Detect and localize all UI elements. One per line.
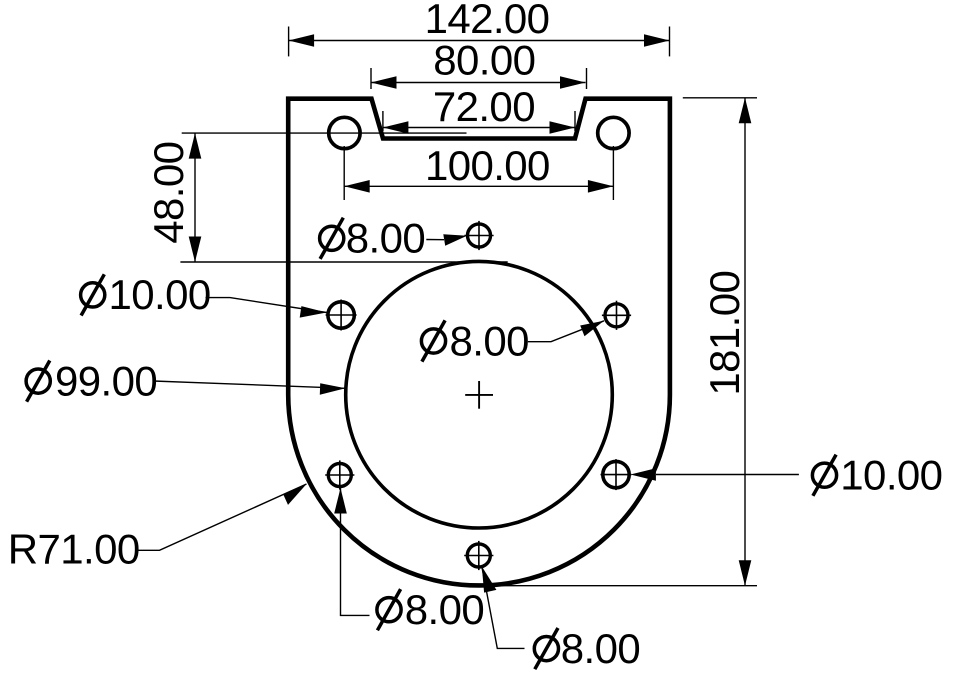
hole D10 upper-left [326, 300, 357, 331]
label D99.00 [26, 361, 50, 402]
hole D8 bottom [464, 541, 493, 570]
hole D8 upper-right [602, 301, 631, 330]
label D10.00 left [81, 274, 105, 315]
hole D8 lower-left [325, 460, 354, 489]
label D8.00 bottom [534, 628, 558, 669]
leader D8 bottom [482, 566, 640, 672]
dim 72.00 [383, 111, 575, 131]
hole top-right (plain) [598, 117, 629, 148]
big circle D99 [346, 261, 613, 528]
dim 48.00 [180, 133, 507, 262]
svg-text:181.00: 181.00 [701, 271, 748, 396]
leader D8 top [320, 215, 467, 262]
svg-text:8.00: 8.00 [405, 586, 484, 633]
hole D8 top [464, 221, 493, 250]
svg-text:8.00: 8.00 [561, 625, 640, 672]
label D8.00 top [320, 218, 344, 259]
svg-text:10.00: 10.00 [109, 271, 211, 318]
part outline [288, 99, 670, 586]
svg-text:8.00: 8.00 [450, 317, 529, 364]
label D8.00 lower-left [377, 589, 401, 630]
svg-text:99.00: 99.00 [55, 357, 157, 404]
center mark [465, 381, 493, 409]
hole D10 lower-right [601, 459, 632, 490]
leader D8 lower-left [334, 488, 484, 633]
leader D10 right [630, 452, 942, 499]
svg-text:8.00: 8.00 [346, 215, 425, 262]
label D10.00 right [812, 455, 836, 496]
svg-text:48.00: 48.00 [145, 142, 192, 244]
leader R71.00 [8, 484, 307, 573]
svg-text:10.00: 10.00 [840, 452, 942, 499]
svg-text:80.00: 80.00 [433, 37, 535, 84]
leader D8 mid-right [421, 317, 604, 364]
svg-text:100.00: 100.00 [425, 142, 550, 189]
dim 142.00 [289, 27, 670, 57]
hole top-left (plain) [329, 117, 360, 148]
leader D99 [26, 357, 345, 404]
svg-text:R71.00: R71.00 [8, 526, 140, 573]
leader D10 upper-left [81, 271, 327, 318]
dim 181.00 [493, 98, 757, 586]
dim 80.00 [371, 68, 587, 89]
dim 100.00 [344, 146, 613, 200]
label D8.00 mid [421, 320, 445, 361]
svg-text:72.00: 72.00 [433, 83, 535, 130]
